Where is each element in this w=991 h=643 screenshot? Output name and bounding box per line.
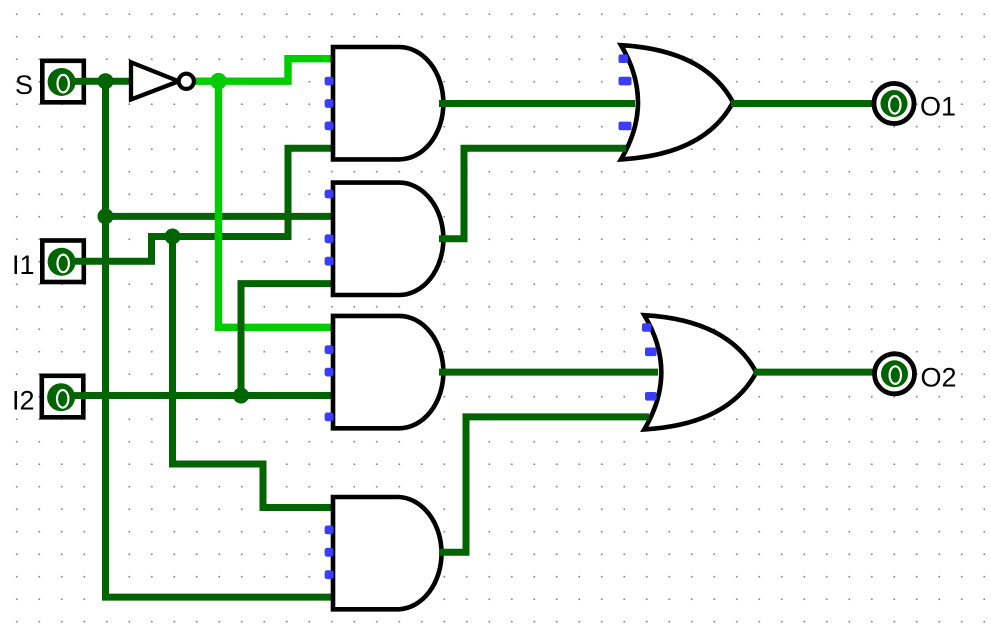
wire AND2 output to OR1 pin5 [439,148,626,239]
U3 unconnected input pin1 [325,190,334,199]
wire AND4 output to OR2 pin5 [439,417,649,552]
AND gate U2 [333,47,443,159]
input I1 toggle box [42,241,87,283]
U6 unconnected input pin1 [619,54,629,63]
input I2 toggle box [42,376,87,418]
U7 unconnected input pin2 [645,348,657,357]
svg-text:I2: I2 [12,385,35,415]
U6 unconnected input pin4 [619,122,632,131]
junction on S output [98,73,114,89]
svg-text:O2: O2 [921,362,957,392]
U6 unconnected input pin2 [619,77,632,86]
U2 unconnected input pin4 [325,122,334,131]
wire NOT-out to AND1 pin1 (high) [219,59,335,81]
junction I1 branch [165,229,181,245]
NOT gate U1 [131,62,194,99]
wire I1 branch to AND4 pin1 [173,237,335,508]
U4 unconnected input pin3 [325,368,334,377]
U2 unconnected input pin2 [325,77,334,86]
wire OR2 output to O2 [754,369,874,376]
AND gate U3 [333,183,443,295]
junction S to AND2 branch [98,208,114,224]
U5 unconnected input pin4 [325,570,334,579]
wire S bottom run to AND4 pin5 [102,594,334,601]
AND gate U4 [333,316,443,428]
svg-text:I1: I1 [12,250,35,280]
output LED O1 [874,84,914,124]
U5 unconnected input pin2 [325,526,334,535]
input S toggle box [42,61,87,103]
wire AND3 output to OR2 pin3 [439,369,658,376]
U4 unconnected input pin2 [325,345,334,354]
junction NOT output (high) [210,73,227,90]
U4 unconnected input pin5 [325,413,334,422]
wire I2 branch to AND2 pin5 [241,284,334,399]
junction I2 branch [233,388,249,404]
wire I1 output run [84,148,334,261]
svg-text:S: S [15,70,33,100]
wire AND1 output to OR1 pin3 [439,100,635,107]
OR gate U6 [621,45,733,159]
output LED O2 [875,354,915,394]
wire NOT-out to AND3 pin1 (high) [219,81,335,327]
U7 unconnected input pin4 [645,392,657,401]
svg-text:O1: O1 [920,92,956,122]
U3 unconnected input pin4 [325,257,334,266]
wire NOT output (high) [195,77,222,84]
wire S output to NOT input [84,78,133,85]
U2 unconnected input pin3 [325,99,334,108]
OR gate U7 [644,315,756,429]
U5 unconnected input pin3 [325,548,334,557]
wire S branch to AND2 pin2 [106,213,335,220]
U3 unconnected input pin3 [325,234,334,243]
wire S vertical bus [102,81,109,597]
wire I2 output to AND3 pin4 [84,392,334,399]
wire OR1 output to O1 [731,100,875,107]
U7 unconnected input pin1 [642,323,652,332]
AND gate U5 [333,497,442,609]
